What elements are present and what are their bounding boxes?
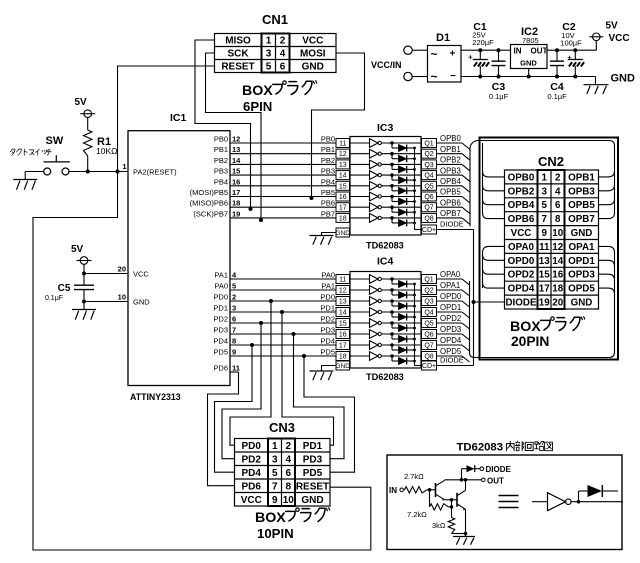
IC3 input pin box 11 [336, 139, 350, 148]
svg-text:TD62083: TD62083 [366, 241, 404, 251]
svg-text:PB6: PB6 [321, 199, 335, 208]
svg-text:OPD0: OPD0 [508, 256, 535, 267]
svg-text:TD62083: TD62083 [366, 372, 404, 382]
svg-text:−: − [450, 71, 456, 82]
svg-text:PD1: PD1 [303, 441, 323, 452]
svg-text:PD2: PD2 [320, 315, 335, 324]
svg-text:14: 14 [232, 156, 241, 165]
terminal 5V VCC [589, 21, 629, 45]
OUT rail and terminal [445, 477, 504, 486]
svg-text:OPB4: OPB4 [440, 177, 461, 186]
IC1 pin 10 GND [84, 293, 150, 307]
svg-text:0.1μF: 0.1μF [489, 92, 509, 101]
svg-text:GND: GND [301, 495, 323, 506]
svg-text:OPB2: OPB2 [508, 186, 535, 197]
wire into CN2 right cell row 8 [599, 274, 615, 280]
wire into CN2 right cell row 7 [599, 260, 615, 266]
bus vertical inside CN2 right bottom group [614, 252, 616, 352]
svg-text:(MISO)PB6: (MISO)PB6 [190, 199, 228, 208]
IC3 input pin box 18 [336, 213, 350, 222]
IC1 pin 2 PD0 and wire to IC4 input [213, 293, 336, 304]
svg-text:PA1: PA1 [214, 271, 228, 280]
svg-text:9: 9 [272, 495, 278, 506]
IC3 input pin box 17 [336, 203, 350, 212]
svg-text:12: 12 [552, 242, 563, 253]
svg-text:Q1: Q1 [424, 140, 433, 147]
svg-text:+: + [450, 49, 456, 60]
wire IC4 output OPD2 to CN2 bus [437, 314, 470, 329]
wire into CN2 left cell row 7 [483, 254, 505, 260]
svg-text:3: 3 [266, 49, 272, 60]
svg-text:PB1: PB1 [214, 145, 228, 154]
svg-text:OPB7: OPB7 [440, 209, 461, 218]
wire into CN2 left cell row 9 [483, 282, 505, 288]
IC3 input pin box 12 [336, 149, 350, 158]
wire into CN2 left cell row 4 [483, 213, 505, 219]
svg-text:15: 15 [339, 183, 347, 190]
IC1 pin 15 PB3 and wire to IC3 input [214, 167, 336, 176]
svg-text:3: 3 [272, 454, 278, 465]
wire PD5 to CN3 pin6 [304, 356, 355, 472]
svg-text:PA0: PA0 [214, 282, 228, 291]
svg-text:20: 20 [118, 265, 126, 274]
IC4 input pin box 11 [336, 275, 350, 284]
capacitor C3 0.1uF [489, 50, 509, 101]
internal ground [452, 532, 476, 545]
IC3 buffer and clamp diode row 6 [350, 192, 422, 205]
svg-text:2: 2 [285, 441, 291, 452]
svg-text:IN: IN [389, 486, 397, 495]
IC4 output pin box Q8 [422, 352, 437, 361]
svg-text:8: 8 [285, 481, 291, 492]
svg-text:11: 11 [539, 242, 550, 253]
svg-text:PB3: PB3 [321, 167, 335, 176]
svg-text:GND: GND [571, 228, 593, 239]
switch SW tact [44, 135, 70, 175]
IC4 buffer and clamp diode row 7 [350, 341, 422, 354]
bus along CN2 bottom edge [475, 352, 615, 358]
svg-text:CN2: CN2 [538, 154, 564, 169]
svg-text:OPB5: OPB5 [440, 188, 461, 197]
svg-text:OPB3: OPB3 [440, 166, 461, 175]
svg-text:IC4: IC4 [377, 256, 394, 268]
svg-text:BOX: BOX [242, 83, 273, 99]
svg-text:220μF: 220μF [472, 38, 494, 47]
svg-text:8: 8 [555, 214, 561, 225]
svg-text:IC1: IC1 [170, 112, 187, 124]
IC1 pin 3 PD1 and wire to IC4 input [213, 304, 336, 315]
svg-text:PD5: PD5 [320, 348, 335, 357]
wire PD2 to CN3 pin3 [222, 323, 261, 459]
svg-text:2.7kΩ: 2.7kΩ [404, 472, 424, 481]
svg-text:OPB4: OPB4 [508, 200, 535, 211]
resistor 7.2k [407, 490, 453, 519]
svg-text:GND: GND [133, 298, 150, 307]
svg-text:OPB2: OPB2 [440, 156, 461, 165]
svg-text:OPD3: OPD3 [568, 270, 595, 281]
svg-text:PB1: PB1 [321, 145, 335, 154]
IC3 output pin box Q5 [422, 181, 437, 190]
svg-text:CD+: CD+ [422, 363, 436, 370]
IC4 input pin box 12 [336, 286, 350, 295]
IC4 buffer and clamp diode row 8 [350, 352, 422, 365]
IC4 output pin box Q4 [422, 308, 437, 317]
IC3 buffer and clamp diode row 8 [350, 214, 422, 227]
svg-text:PD4: PD4 [242, 468, 262, 479]
svg-text:100μF: 100μF [560, 39, 582, 48]
svg-text:PA1: PA1 [321, 282, 335, 291]
svg-text:5V: 5V [71, 244, 84, 255]
wire IC4 output OPD4 to CN2 bus [437, 336, 470, 351]
svg-text:17: 17 [539, 284, 550, 295]
label BOXプラグ 6PIN for CN1 [242, 81, 317, 114]
wire IC4 output OPD3 to CN2 bus [437, 325, 470, 340]
equivalent buffer symbol [532, 493, 579, 511]
svg-text:OPA0: OPA0 [508, 242, 535, 253]
IC4 buffer and clamp diode row 6 [350, 330, 422, 343]
svg-text:IC3: IC3 [377, 122, 394, 134]
svg-text:15: 15 [539, 270, 550, 281]
internal circuit outer box [387, 455, 622, 550]
IC1 pin 11 PD6 [213, 364, 240, 373]
svg-text:~: ~ [431, 70, 438, 84]
svg-text:PB3: PB3 [214, 167, 228, 176]
ground symbol at C5 [72, 310, 96, 320]
IC4 buffer and clamp diode row 2 [350, 286, 422, 299]
wire IC4 output OPA0 to CN2 bus [437, 270, 470, 285]
wire into CN2 right cell row 4 [599, 213, 615, 219]
IC4 CD+ pin box [422, 361, 437, 370]
svg-text:6: 6 [285, 468, 291, 479]
svg-text:MISO: MISO [225, 36, 251, 47]
wire MOSI: CN1 pin4 to IC1 PB5 [310, 53, 365, 200]
IC3 output pin box Q2 [422, 149, 437, 158]
svg-text:11: 11 [339, 140, 346, 147]
connector CN1 pin table [215, 34, 337, 73]
svg-text:10KΩ: 10KΩ [96, 146, 117, 156]
svg-text:GND: GND [336, 230, 351, 237]
svg-text:19: 19 [232, 209, 240, 218]
svg-text:7.2kΩ: 7.2kΩ [407, 510, 427, 519]
IC1 pin 17 (MOSI)PB5 and wire to IC3 input [190, 188, 336, 197]
svg-text:Q8: Q8 [424, 353, 433, 360]
svg-text:2: 2 [555, 172, 561, 183]
wire IC3 GND to ground [322, 233, 337, 236]
bus vertical inside CN2 left top group [482, 143, 484, 213]
svg-text:Q2: Q2 [424, 287, 433, 294]
equivalence sign [499, 496, 519, 508]
wire into CN2 left cell row 3 [483, 199, 505, 205]
svg-text:10: 10 [118, 293, 126, 302]
wire PA2 node: SW to IC1 pin1 [69, 170, 128, 174]
svg-text:5: 5 [272, 468, 278, 479]
wire IC4 output OPD1 to CN2 bus [437, 303, 470, 318]
input terminal VCC/IN circles [404, 46, 428, 81]
svg-text:PD5: PD5 [213, 348, 228, 357]
svg-text:CD+: CD+ [422, 227, 436, 234]
svg-text:RESET: RESET [221, 62, 254, 73]
IC4 output pin box Q7 [422, 341, 437, 350]
IC4 buffer and clamp diode row 5 [350, 319, 422, 332]
transistor Q2 [445, 480, 466, 534]
svg-text:OPD0: OPD0 [440, 292, 462, 301]
svg-text:15: 15 [232, 167, 240, 176]
svg-text:D1: D1 [436, 32, 450, 44]
clamp diode to DIODE terminal [462, 465, 512, 480]
svg-text:Q2: Q2 [424, 151, 433, 158]
bus along CN2 top edge [477, 141, 615, 147]
IC4 input pin box 18 [336, 352, 350, 361]
IC3 input pin box 16 [336, 192, 350, 201]
svg-text:C5: C5 [58, 283, 71, 294]
svg-text:0.1μF: 0.1μF [45, 295, 63, 302]
svg-text:18: 18 [339, 215, 347, 222]
svg-text:8: 8 [232, 337, 236, 346]
bus vertical left of CN2 top group [470, 141, 477, 227]
IC3 CD+ pin box [422, 225, 437, 234]
wire SW to ground [25, 172, 44, 180]
svg-text:PD3: PD3 [213, 326, 228, 335]
svg-text:2: 2 [232, 293, 236, 302]
svg-text:OPD1: OPD1 [440, 303, 461, 312]
svg-text:PA0: PA0 [321, 271, 335, 280]
svg-text:PD6: PD6 [213, 364, 228, 373]
capacitor C1 electrolytic 220uF [468, 21, 494, 77]
svg-text:PD0: PD0 [320, 293, 335, 302]
svg-text:OPB3: OPB3 [568, 186, 595, 197]
IC U1 IC1 ATTINY2313 body [128, 112, 230, 402]
svg-text:9: 9 [542, 228, 548, 239]
svg-text:~: ~ [431, 47, 438, 61]
svg-text:+: + [468, 53, 473, 62]
IC1 pin 1 PA2(RESET) [122, 162, 177, 177]
resistor 2.7k [404, 472, 436, 493]
svg-text:20PIN: 20PIN [511, 334, 549, 349]
equivalent diode branch [577, 485, 623, 504]
terminal 5V for C5 [71, 244, 92, 264]
svg-text:6: 6 [232, 315, 236, 324]
svg-text:12: 12 [232, 135, 240, 144]
svg-text:5V: 5V [606, 21, 619, 32]
label VCC/IN [371, 60, 402, 70]
svg-text:SCK: SCK [227, 49, 249, 60]
svg-text:1: 1 [122, 162, 126, 171]
svg-text:PD5: PD5 [303, 468, 323, 479]
svg-text:10: 10 [283, 495, 295, 506]
wire into CN2 left cell row 1 [483, 171, 505, 177]
wire into CN2 right cell row 9 [599, 288, 615, 294]
svg-text:OUT: OUT [487, 477, 504, 486]
connector CN2 title [538, 154, 564, 169]
svg-text:OPD4: OPD4 [440, 336, 462, 345]
svg-text:5V: 5V [75, 97, 88, 108]
IC3 input pin box 13 [336, 160, 350, 169]
svg-text:PB4: PB4 [214, 177, 228, 186]
svg-text:13: 13 [339, 298, 347, 305]
svg-text:OPD2: OPD2 [508, 270, 535, 281]
svg-text:6: 6 [280, 62, 286, 73]
wire IC3 output OPB6 to CN2 bus [437, 198, 471, 213]
svg-text:16: 16 [339, 331, 347, 338]
svg-text:OPB6: OPB6 [440, 198, 461, 207]
IC3 buffer and clamp diode row 4 [350, 171, 422, 184]
IC3 input pin box 14 [336, 171, 350, 180]
IC4 common diode rail [415, 284, 422, 366]
wire into CN2 right cell row 3 [599, 199, 615, 205]
wire into CN2 right cell row 2 [599, 185, 615, 191]
wire IC4 output OPD0 to CN2 bus [437, 292, 470, 307]
svg-text:OPB0: OPB0 [508, 172, 535, 183]
svg-text:5: 5 [232, 282, 236, 291]
IC4 input pin box 13 [336, 297, 350, 306]
IC4 buffer and clamp diode row 3 [350, 297, 422, 310]
svg-text:Q3: Q3 [424, 298, 433, 305]
svg-text:GND: GND [520, 59, 537, 68]
svg-text:7: 7 [542, 214, 548, 225]
svg-text:OUT: OUT [531, 47, 548, 56]
svg-text:RESET: RESET [296, 481, 329, 492]
svg-text:VCC: VCC [241, 495, 262, 506]
svg-text:DIODE: DIODE [440, 220, 464, 229]
IC3 GND pin box [336, 228, 351, 237]
wire 5V rail regulator output to VCC terminal [547, 40, 596, 52]
label BOXプラグ 10PIN for CN3 [255, 508, 330, 541]
svg-text:11: 11 [339, 276, 346, 283]
IC1 pin 14 PB2 and wire to IC3 input [214, 156, 336, 165]
svg-text:OPB5: OPB5 [568, 200, 595, 211]
svg-text:PD1: PD1 [213, 304, 228, 313]
svg-text:PB5: PB5 [321, 188, 335, 197]
svg-text:PB2: PB2 [321, 156, 335, 165]
svg-text:0.1μF: 0.1μF [547, 92, 567, 101]
svg-text:ATTINY2313: ATTINY2313 [130, 392, 181, 402]
IC4 output pin box Q1 [422, 275, 437, 284]
resistor R1 10K [84, 118, 118, 172]
svg-text:OPB1: OPB1 [568, 172, 595, 183]
svg-text:IN: IN [514, 47, 522, 56]
IC3 input pin box 15 [336, 181, 350, 190]
svg-text:3: 3 [232, 304, 236, 313]
wire PD3 to CN3 pin4 [294, 334, 345, 459]
svg-text:17: 17 [339, 342, 347, 349]
svg-text:12: 12 [339, 287, 347, 294]
IC4 buffer and clamp diode row 1 [350, 275, 422, 288]
bus vertical inside CN2 left bottom group [483, 246, 505, 288]
svg-text:GND: GND [611, 73, 636, 85]
svg-text:17: 17 [339, 205, 347, 212]
svg-text:14: 14 [339, 309, 347, 316]
svg-text:VCC: VCC [609, 33, 630, 44]
svg-text:VCC/IN: VCC/IN [371, 60, 402, 70]
IC4 input pin box 16 [336, 330, 350, 339]
svg-text:10PIN: 10PIN [257, 526, 294, 541]
svg-text:PA2(RESET): PA2(RESET) [133, 168, 177, 177]
svg-text:Q4: Q4 [424, 309, 433, 316]
svg-text:BOX: BOX [255, 510, 286, 526]
wire IC3 output OPB7 to CN2 bus [437, 209, 471, 224]
svg-text:(SCK)PB7: (SCK)PB7 [193, 209, 228, 218]
svg-text:OPD1: OPD1 [568, 256, 595, 267]
svg-text:Q7: Q7 [424, 342, 433, 349]
svg-text:7: 7 [272, 481, 278, 492]
svg-text:17: 17 [232, 188, 240, 197]
IC3 output pin box Q7 [422, 203, 437, 212]
IC1 pin 9 PD5 and wire to IC4 input [213, 348, 336, 359]
svg-text:13: 13 [232, 145, 240, 154]
connector CN1 title [262, 12, 288, 27]
svg-text:OPA0: OPA0 [440, 270, 461, 279]
regulator IC2 7805 [511, 26, 548, 77]
svg-text:18: 18 [552, 284, 563, 295]
svg-text:9: 9 [232, 348, 236, 357]
wire IC3 output OPB0 to CN2 bus [437, 134, 471, 149]
wire into CN2 right cell row 1 [599, 171, 615, 177]
svg-text:CN1: CN1 [262, 12, 288, 27]
label BOXプラグ 20PIN for CN2 [510, 317, 585, 349]
wire +V rail D1 to regulator input [461, 48, 511, 52]
svg-text:(MOSI)PB5: (MOSI)PB5 [190, 188, 228, 197]
IC1 pin 18 (MISO)PB6 and wire to IC3 input [190, 199, 336, 208]
ground symbol power rail [584, 73, 636, 94]
svg-text:1: 1 [266, 36, 272, 47]
label IN with terminal [389, 486, 404, 495]
connector CN2 outer box [480, 138, 619, 360]
label TD62083内部回路図 title [457, 441, 553, 453]
IC1 pin 20 VCC [84, 265, 149, 279]
wire PD1 to CN3 pin2 [282, 312, 334, 445]
svg-text:CN3: CN3 [269, 420, 295, 435]
svg-text:PB7: PB7 [321, 209, 335, 218]
IC3 output pin box Q8 [422, 213, 437, 222]
terminal 5V for R1 [75, 97, 96, 117]
svg-text:SW: SW [46, 135, 64, 147]
svg-text:OPD3: OPD3 [440, 325, 461, 334]
svg-text:PB0: PB0 [214, 135, 228, 144]
svg-text:18: 18 [339, 353, 347, 360]
svg-text:OPB7: OPB7 [568, 214, 595, 225]
svg-text:PD0: PD0 [242, 441, 262, 452]
svg-text:Q5: Q5 [424, 320, 433, 327]
svg-text:DIODE: DIODE [505, 297, 536, 308]
IC1 pin 6 PD2 and wire to IC4 input [213, 315, 336, 326]
svg-text:VCC: VCC [302, 36, 323, 47]
svg-text:4: 4 [285, 454, 291, 465]
diode bridge D1 [428, 32, 462, 84]
IC3 buffer and clamp diode row 1 [350, 139, 422, 152]
svg-text:OPB6: OPB6 [508, 214, 535, 225]
svg-text:+: + [567, 53, 572, 62]
svg-text:12: 12 [339, 151, 347, 158]
IC4 output pin box Q6 [422, 330, 437, 339]
IC3 output pin box Q3 [422, 160, 437, 169]
IC4 TD62083 body [350, 256, 421, 383]
wire SCK: CN1 pin3 to IC1 PB7 [206, 53, 264, 222]
wire IC3 output OPB1 to CN2 bus [437, 145, 471, 160]
svg-text:19: 19 [539, 297, 550, 308]
IC3 buffer and clamp diode row 5 [350, 181, 422, 194]
IC4 input pin box 15 [336, 319, 350, 328]
svg-text:20: 20 [552, 297, 563, 308]
svg-text:14: 14 [339, 173, 347, 180]
wire IC3 output OPB3 to CN2 bus [437, 166, 471, 181]
svg-text:GND: GND [302, 62, 324, 73]
svg-text:PB2: PB2 [214, 156, 228, 165]
svg-text:10: 10 [552, 228, 563, 239]
svg-text:OPD2: OPD2 [440, 314, 461, 323]
svg-text:13: 13 [339, 162, 347, 169]
IC4 buffer and clamp diode row 4 [350, 308, 422, 321]
svg-text:GND: GND [571, 297, 593, 308]
